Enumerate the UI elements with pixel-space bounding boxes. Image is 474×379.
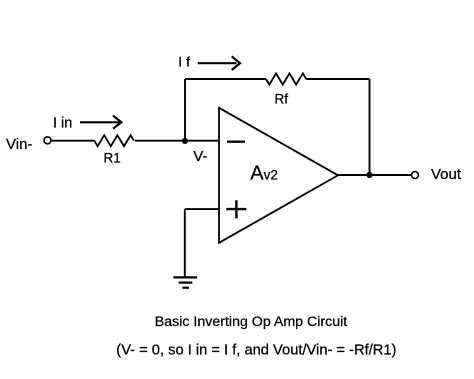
ground xyxy=(173,277,197,287)
wire feedback down xyxy=(369,79,371,175)
wire input right xyxy=(135,140,219,142)
svg-text:Vin-: Vin- xyxy=(6,136,32,153)
terminal Vout xyxy=(412,172,419,179)
svg-text:I f: I f xyxy=(178,54,190,70)
wire feedback top right xyxy=(306,78,369,80)
wire input left xyxy=(51,140,94,142)
wire feedback up xyxy=(184,79,186,141)
node output junction xyxy=(366,172,372,178)
current arrow I f xyxy=(198,56,240,70)
svg-text:I in: I in xyxy=(53,115,72,131)
node V- junction xyxy=(182,138,188,144)
svg-text:R1: R1 xyxy=(104,150,121,165)
wire to ground xyxy=(184,209,186,277)
op-amp U1 xyxy=(219,108,338,243)
svg-text:(V- = 0, so I in = I f, and Vo: (V- = 0, so I in = I f, and Vout/Vin- = … xyxy=(116,343,396,359)
wire feedback top left xyxy=(185,78,266,80)
resistor R1 xyxy=(94,135,134,146)
op-amp non-inverting input pin (+) xyxy=(226,200,246,218)
wire output xyxy=(338,174,411,176)
terminal Vin- xyxy=(44,137,51,144)
svg-text:Vout: Vout xyxy=(431,166,462,183)
resistor Rf xyxy=(266,73,306,84)
svg-text:V-: V- xyxy=(193,148,207,165)
current arrow I in xyxy=(80,116,121,129)
op-amp inverting input pin (-) xyxy=(227,140,245,142)
wire non-inverting input xyxy=(185,208,219,210)
svg-text:Basic Inverting Op Amp Circuit: Basic Inverting Op Amp Circuit xyxy=(155,314,347,330)
svg-text:Rf: Rf xyxy=(275,92,289,107)
